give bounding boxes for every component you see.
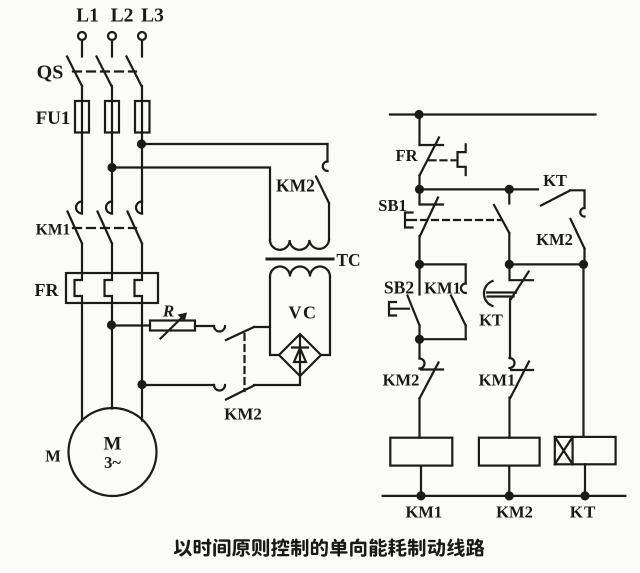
wire FR to rail2 (418, 176, 420, 190)
wire pole2 fuse to KM1 (111, 101, 113, 214)
contact KM2 NC seat (421, 368, 443, 370)
wire pole3 to fuse (141, 86, 143, 101)
terminal L2 (108, 32, 116, 40)
rectifier VC diode (299, 335, 301, 374)
thermal relay FR box (66, 273, 158, 303)
node L2 branch to TC (109, 164, 116, 171)
svg-text:KM1: KM1 (479, 371, 516, 390)
wire right branch to KT coil (582, 264, 584, 437)
contact KM1 selfhold fixed hook (461, 284, 466, 294)
wire pole3 FR to motor (141, 303, 143, 421)
wire parallel box bottom (420, 338, 466, 340)
contact KM1 NC blade (511, 362, 530, 398)
wire KM2 power to TC primary (328, 203, 330, 240)
svg-text:KM2: KM2 (276, 176, 315, 196)
contact KT top NO blade (541, 191, 570, 206)
terminal L1 (78, 32, 86, 40)
button SB2 blade (408, 296, 420, 326)
contact FR NC seat (420, 144, 444, 146)
contact KM2 NC fixed hook (420, 359, 425, 369)
contact FR linkage dashed (430, 159, 456, 161)
svg-text:KM2: KM2 (224, 405, 262, 424)
contactor KM1 pole1 blade (68, 212, 83, 244)
contact KM2 right blade (571, 219, 585, 249)
wire KT contact to corner (570, 190, 585, 208)
FR heater pole3 (135, 273, 143, 303)
node rail3 right (580, 261, 587, 268)
contact KM1 NC seat (511, 369, 533, 371)
svg-text:QS: QS (37, 62, 64, 84)
contact KM2 lower fixed hook (214, 385, 225, 391)
rectifier VC diamond (279, 334, 321, 376)
svg-text:L3: L3 (141, 6, 164, 27)
svg-text:KM1: KM1 (424, 279, 461, 298)
svg-text:FR: FR (396, 146, 419, 165)
contact KM2 brake linkage dashed (243, 334, 245, 391)
wire pole2 to resistor R (112, 324, 151, 326)
wire L2 drop (111, 40, 113, 57)
switch QS linkage dashed (73, 70, 136, 72)
coil KT (555, 437, 616, 464)
coil KM2 (479, 438, 540, 466)
switch QS pole2 blade (97, 57, 112, 87)
node bottom rail KT (582, 492, 589, 499)
node rail2 right (506, 186, 513, 193)
contactor KM1 pole3 fixed hook (136, 202, 142, 214)
node R branch on pole2 (108, 322, 115, 329)
svg-text:SB1: SB1 (378, 196, 406, 215)
contact KM2 power blade (316, 177, 329, 204)
button SB1 NC seat (420, 189, 444, 204)
contact KT delay blade (511, 272, 529, 299)
contactor KM1 pole2 blade (98, 212, 113, 244)
contact KM2 power fixed hook (323, 162, 328, 172)
switch QS pole1 blade (67, 57, 82, 87)
contactor KM1 pole2 fixed hook (106, 202, 112, 214)
contact KT delay seat (510, 264, 534, 280)
node SB2 bottom (416, 336, 423, 343)
transformer TC secondary winding (270, 267, 330, 277)
wire L1 drop (81, 40, 83, 57)
node bottom rail KM2 (506, 492, 513, 499)
svg-text:KM1: KM1 (36, 222, 70, 239)
wire L3 drop (141, 40, 143, 57)
wire KM2 lower to bridge bottom (254, 376, 300, 385)
button SB2 top terminal (418, 264, 420, 294)
wire KM2 NC to KM1 coil (418, 399, 420, 438)
wire pole1 FR to motor (81, 303, 83, 421)
wire pole1 fuse to KM1 (81, 101, 83, 214)
svg-text:FR: FR (35, 280, 60, 300)
contact KT delay arc (484, 281, 493, 306)
wire KT coil to bottom rail (584, 464, 586, 496)
button SB2 actuator (389, 302, 409, 316)
button SB1 NC blade (420, 198, 438, 237)
caption 以时间原则控制的单向能耗制动线路 (174, 540, 192, 557)
wire KM2 upper to bridge AC left (254, 326, 270, 328)
wire L3 feed to KM2 power contact drop (326, 144, 328, 162)
wire bottom rail (383, 495, 626, 497)
coil KM1 (390, 438, 452, 466)
contact KM1 NC fixed hook (510, 358, 515, 368)
wire SB1-NO to rail3 (508, 233, 510, 264)
wire KM1 NC to KM2 coil (508, 398, 510, 438)
FR heater pole2 (105, 273, 113, 303)
contact KM2 upper fixed hook (214, 326, 225, 332)
wire pole1 to fuse (81, 86, 83, 101)
wire pole2 KM1 to FR (111, 244, 113, 274)
svg-text:FU1: FU1 (36, 108, 71, 129)
node L3 branch to KM2/TC (138, 141, 145, 148)
motor M circle (69, 408, 157, 496)
wire pole1 KM1 to FR (81, 244, 83, 274)
svg-text:M: M (45, 447, 61, 466)
resistor R arrow (161, 316, 185, 339)
svg-text:TC: TC (336, 250, 360, 270)
transformer TC core (267, 258, 333, 261)
fuse FU1 pole2 (105, 101, 119, 133)
node SB1 bottom (416, 261, 423, 268)
wire TC secondary left to bridge (270, 277, 279, 356)
wire L3 to KM2 lower contact (142, 384, 214, 386)
node rail2 left (416, 186, 423, 193)
svg-text:KT: KT (479, 311, 503, 330)
wire KT delay to KM1 NC (509, 299, 511, 358)
node top rail junction (416, 111, 423, 118)
svg-text:KM2: KM2 (536, 230, 573, 249)
wire pole2 FR to motor (111, 303, 113, 409)
svg-text:KM2: KM2 (383, 371, 420, 390)
svg-text:SB2: SB2 (384, 278, 414, 298)
wire pole2 to fuse (111, 86, 113, 101)
contact KM2 upper blade (226, 327, 254, 340)
terminal L3 (138, 32, 146, 40)
contactor KM1 pole3 blade (128, 212, 143, 244)
wire parallel box right bottom (465, 326, 467, 340)
wire left branch to KM2 NC (418, 339, 420, 358)
wire resistor to KM2 upper contact (195, 325, 214, 327)
wire control top rail (390, 113, 596, 115)
wire SB2 to node (418, 326, 420, 340)
node rail3 left (506, 261, 513, 268)
wire rail to FR contact (418, 115, 420, 146)
contact KM2 right fixed hook (580, 208, 584, 217)
contact KM1 selfhold blade (451, 296, 466, 326)
node L3 brake branch (139, 381, 146, 388)
contact FR NC blade (420, 138, 440, 176)
button SB1 actuator (405, 213, 416, 228)
wire SB1 to node (418, 236, 420, 264)
svg-text:KT: KT (543, 171, 567, 190)
contactor KM1 linkage dashed (73, 227, 136, 229)
FR thermal element symbol (458, 144, 466, 175)
svg-text:3~: 3~ (104, 453, 121, 472)
wire KM1 coil to bottom rail (420, 466, 422, 496)
FR heater pole1 (75, 273, 83, 303)
wire pole3 fuse to KM1 (141, 101, 143, 214)
contact KM2 lower blade (226, 386, 254, 400)
svg-text:KT: KT (570, 503, 597, 522)
contact KM2 NC blade (420, 363, 439, 399)
wire TC secondary right to bridge (321, 277, 330, 356)
switch QS pole3 blade (127, 57, 142, 87)
node bottom rail KM1 (418, 492, 425, 499)
wire L2 branch to TC primary (112, 168, 270, 241)
svg-text:KM1: KM1 (405, 503, 442, 522)
svg-text:M: M (104, 434, 122, 455)
contact SB1-NO blade (494, 205, 509, 233)
svg-text:R: R (162, 302, 174, 321)
wire rail2 (420, 188, 539, 190)
wire pole3 KM1 to FR (141, 244, 143, 274)
resistor R body (150, 321, 195, 331)
svg-text:KM2: KM2 (496, 503, 533, 522)
contact KT delay chords (487, 293, 516, 297)
wire rail3 (509, 263, 583, 265)
fuse FU1 pole3 (135, 101, 150, 133)
fuse FU1 pole1 (75, 101, 89, 133)
transformer TC primary winding (270, 240, 329, 250)
svg-text:L1: L1 (76, 6, 99, 27)
contactor KM1 pole1 fixed hook (76, 202, 82, 214)
wire KM2 coil to bottom rail (508, 466, 510, 496)
svg-text:L2: L2 (111, 6, 134, 27)
wire KM2 right to rail3 (583, 249, 585, 265)
contact SB1-NO branch top (508, 189, 510, 203)
wire L3 branch to KM2 contact (142, 143, 328, 145)
svg-text:VC: VC (289, 303, 318, 323)
button SB1 linkage dashed (421, 219, 500, 221)
wire parallel box top (420, 264, 466, 283)
